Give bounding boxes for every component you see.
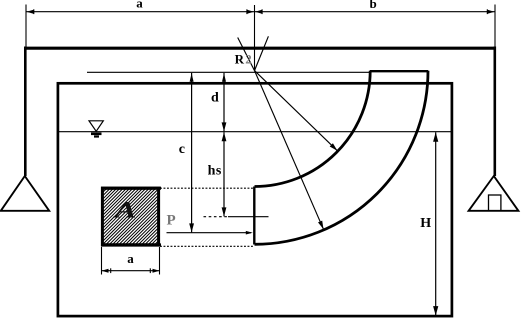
water surface symbol — [89, 121, 103, 132]
arrow tail tick (b left) — [261, 9, 263, 14]
arrow tip right (b) — [488, 10, 495, 14]
svg-text:2: 2 — [245, 52, 252, 67]
dimension line hs — [223, 132, 225, 216]
dimension line a-b (top) — [26, 11, 495, 13]
right support roller box — [489, 195, 501, 211]
svg-text:a: a — [127, 251, 134, 266]
arrow mid-right (b) — [255, 10, 262, 14]
svg-text:A: A — [112, 198, 136, 223]
extension line middle — [254, 5, 256, 71]
arrow tail tick (b right) — [486, 9, 488, 14]
radius line to outer arc — [255, 71, 324, 230]
svg-text:P: P — [167, 213, 176, 229]
right support triangle — [469, 176, 519, 211]
arrow tip left (a) — [27, 10, 34, 14]
dimension line H — [435, 132, 437, 315]
radius leader arm upper-right — [255, 36, 269, 70]
hs level line solid part — [228, 216, 269, 218]
svg-text:R: R — [235, 51, 245, 66]
radius leader arm upper-left — [238, 38, 255, 71]
right column — [493, 47, 496, 177]
gate outer arc — [255, 71, 429, 245]
tank walls — [58, 83, 452, 316]
hs level line dotted part — [204, 216, 229, 218]
square area A (hatched) — [102, 188, 158, 245]
svg-text:d: d — [211, 90, 219, 105]
svg-text:H: H — [420, 216, 431, 231]
arrow mid-left (a) — [247, 10, 254, 14]
water line — [59, 131, 451, 133]
arrow tail tick (a left) — [33, 9, 35, 14]
svg-text:hs: hs — [208, 164, 222, 179]
dimension line d — [223, 73, 225, 131]
svg-text:a: a — [136, 0, 143, 11]
arrow tail tick (a bottom left) — [110, 268, 112, 273]
dimension line a (bottom) — [102, 270, 160, 272]
arrow tail tick (a bottom right) — [149, 268, 151, 273]
dimension a (bottom) extension lines — [101, 247, 103, 275]
hatch lines — [102, 188, 159, 245]
gate top face — [370, 70, 428, 72]
gate inner arc — [255, 71, 371, 187]
gate bottom face — [253, 187, 255, 245]
water surface dash 1 — [91, 133, 102, 136]
reference line at gate top level — [87, 71, 370, 73]
dotted projection line top — [160, 187, 253, 189]
extension line right — [494, 5, 496, 47]
force line P — [167, 232, 252, 234]
dimension line c — [191, 73, 193, 233]
dotted projection line bottom — [160, 245, 253, 247]
top beam — [24, 47, 496, 50]
extension line left — [25, 5, 27, 47]
svg-text:c: c — [179, 142, 185, 157]
left column — [24, 47, 27, 177]
left support triangle — [1, 176, 49, 211]
arrow tail tick (a right) — [246, 9, 248, 14]
water surface dash 2 — [94, 135, 99, 137]
svg-text:b: b — [370, 0, 377, 11]
radius line to inner arc — [255, 71, 338, 151]
